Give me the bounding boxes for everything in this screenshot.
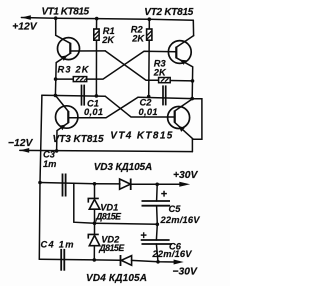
svg-text:VT2 KT815: VT2 KT815 bbox=[144, 7, 193, 18]
wire right loop bbox=[192, 99, 202, 152]
node R3b right bbox=[191, 79, 195, 83]
svg-text:22m/16V: 22m/16V bbox=[160, 215, 201, 225]
svg-text:−12V: −12V bbox=[8, 138, 33, 149]
svg-text:0,01: 0,01 bbox=[84, 107, 103, 117]
node C6 bottom bbox=[156, 260, 160, 264]
svg-text:VT4 KT815: VT4 KT815 bbox=[110, 130, 172, 141]
wire C6 leads bbox=[155, 224, 158, 240]
zener VD1 bbox=[88, 198, 100, 209]
capacitor C3 bbox=[63, 174, 66, 197]
wire VT2 collector diag bbox=[176, 36, 193, 48]
arrow +30V bbox=[179, 182, 190, 187]
svg-text:−30V: −30V bbox=[173, 267, 198, 278]
wire -12V rail bbox=[20, 150, 193, 151]
wire shunt around VD1 bbox=[74, 183, 95, 223]
wire C1 C2 horizontal left segment bbox=[42, 95, 105, 96]
svg-text:+: + bbox=[140, 230, 147, 242]
capacitor C5 bbox=[142, 201, 171, 206]
svg-text:R3 2K: R3 2K bbox=[58, 65, 90, 75]
wire cross lower left to VT4 base bbox=[105, 96, 174, 117]
wire C5 leads bbox=[156, 184, 159, 201]
wire VT1 emitter down bbox=[55, 53, 70, 95]
wire VD3 output line +30V bbox=[95, 183, 121, 185]
capacitor C6 bbox=[141, 240, 172, 244]
transistor VT3 bbox=[55, 106, 77, 128]
node VT1e VT3c bbox=[54, 94, 58, 98]
wire C1 C2 horizontal right segment bbox=[138, 97, 192, 98]
svg-text:VT1 KT815: VT1 KT815 bbox=[42, 7, 90, 18]
svg-text:C5: C5 bbox=[169, 204, 182, 214]
resistor R3 right bbox=[159, 78, 171, 83]
wire VT4 emitter down bbox=[175, 122, 194, 139]
svg-text:2K: 2K bbox=[131, 34, 145, 44]
capacitor C2 bbox=[163, 85, 166, 105]
node VT3 emitter rail bbox=[55, 149, 59, 153]
svg-text:Д815Е: Д815Е bbox=[98, 243, 125, 253]
node VD1 top bbox=[93, 182, 97, 186]
diode VD4 bbox=[121, 255, 132, 266]
wire bottom line -30V bbox=[39, 258, 120, 261]
wire VT4 collector bbox=[175, 99, 193, 111]
arrow +12V bbox=[21, 15, 30, 20]
svg-text:0,01: 0,01 bbox=[139, 107, 158, 117]
wire VT1 collector bbox=[56, 18, 71, 43]
node VD1 bottom bbox=[93, 221, 97, 225]
zener VD2 bbox=[88, 234, 100, 245]
wire C3 lead line to VD column bbox=[40, 183, 95, 184]
node C5 C6 mid bbox=[156, 223, 160, 227]
wire R3b right lead bbox=[170, 80, 192, 82]
svg-text:C2: C2 bbox=[140, 97, 153, 107]
svg-text:C4 1m: C4 1m bbox=[41, 239, 74, 249]
resistor R1 bbox=[94, 29, 99, 40]
node dots bbox=[38, 16, 194, 263]
wire VT2 collector vertical bbox=[192, 20, 194, 35]
wire VD2 leads bbox=[94, 223, 96, 234]
transistor VT2 bbox=[168, 41, 191, 64]
wire VD1 leads bbox=[94, 184, 96, 198]
svg-text:Д815Е: Д815Е bbox=[95, 211, 122, 221]
wire R3a to VT2 base bbox=[87, 51, 177, 79]
node C3 left bbox=[38, 181, 42, 185]
resistor R3 left bbox=[73, 77, 86, 82]
transistor VT1 bbox=[58, 38, 80, 60]
wire left vertical C3 C4 feed bbox=[39, 95, 42, 259]
svg-text:+: + bbox=[161, 189, 168, 201]
diode VD3 bbox=[120, 179, 131, 191]
node VT1 collector rail bbox=[54, 16, 58, 20]
svg-text:2K: 2K bbox=[101, 35, 115, 45]
node R2 bottom bbox=[147, 95, 151, 99]
node R2 rail bbox=[148, 17, 152, 21]
wire R1 leads bbox=[96, 19, 98, 29]
wire VT3 emitter down bbox=[57, 123, 69, 151]
resistor R2 bbox=[147, 29, 152, 40]
svg-text:22m/16V: 22m/16V bbox=[152, 249, 193, 259]
wire R3a left lead bbox=[56, 78, 74, 80]
capacitor C4 bbox=[61, 249, 64, 271]
node R1 rail bbox=[95, 17, 99, 21]
arrow -12V bbox=[20, 148, 29, 153]
svg-text:+30V: +30V bbox=[173, 170, 198, 181]
wire VT1 base lead bbox=[70, 50, 105, 52]
wire R2 leads bbox=[148, 19, 150, 29]
svg-text:VT3 KT815: VT3 KT815 bbox=[53, 134, 104, 145]
arrow -30V bbox=[174, 260, 184, 265]
capacitor C1 bbox=[82, 85, 85, 106]
svg-text:VD3 КД105А: VD3 КД105А bbox=[94, 162, 153, 173]
node C5 top bbox=[155, 183, 159, 187]
svg-text:VD4 КД105А: VD4 КД105А bbox=[86, 273, 147, 284]
wire VT2 emitter down bbox=[176, 58, 192, 99]
svg-text:+12V: +12V bbox=[12, 21, 37, 32]
svg-text:1m: 1m bbox=[43, 159, 56, 169]
node R3a left bbox=[54, 77, 58, 81]
wire cross-couple VT1 base to R3b bbox=[105, 51, 158, 80]
wire +12V top rail bbox=[21, 18, 193, 21]
wire mid line to C5 C6 junction bbox=[95, 223, 158, 224]
svg-text:2K: 2K bbox=[153, 68, 167, 78]
wire VT3 base to cross lower right bbox=[68, 97, 138, 117]
node VD2 bottom bbox=[93, 258, 97, 262]
node VT2e VT4c bbox=[190, 97, 194, 101]
transistor VT4 bbox=[168, 107, 190, 129]
wire VT3 collector bbox=[55, 95, 68, 111]
node R1 bottom bbox=[95, 94, 99, 98]
